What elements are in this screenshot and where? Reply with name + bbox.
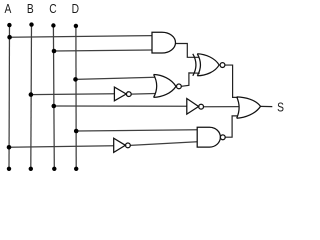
- svg-text:D: D: [72, 3, 79, 16]
- svg-text:S: S: [277, 101, 284, 114]
- svg-text:B: B: [27, 3, 34, 16]
- svg-text:A: A: [4, 3, 11, 16]
- svg-text:C: C: [49, 3, 56, 16]
